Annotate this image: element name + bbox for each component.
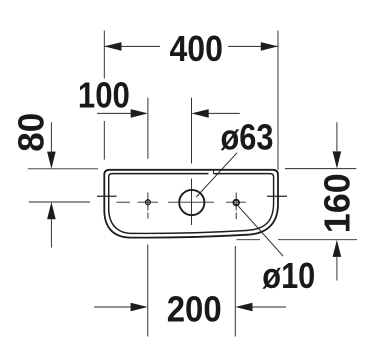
arrow 160 down (333, 151, 342, 168)
ext 160 bottom horizontal seg1 (237, 239, 261, 241)
left hole vertical dash below (147, 213, 149, 219)
dim 160 vertical upper (336, 122, 338, 151)
ext 80 bottom horizontal (29, 201, 90, 203)
dim 160 vertical lower (336, 257, 338, 281)
arrow 100 right / o63 (192, 109, 209, 118)
svg-text:100: 100 (78, 75, 130, 116)
svg-text:ø10: ø10 (262, 255, 315, 296)
big hole circle o63 (179, 190, 204, 215)
lid seam gap on inner top line (209, 173, 214, 175)
svg-text:200: 200 (167, 288, 222, 329)
extension line right (400) (277, 31, 279, 170)
ext 200 right vertical (234, 246, 236, 337)
arrow 200 right (131, 303, 148, 312)
arrow 200 left (235, 303, 252, 312)
ext 80 top horizontal (28, 168, 98, 170)
leader o63 (196, 153, 237, 197)
tank body inner (109, 174, 274, 234)
dim line 400 right segment (228, 45, 278, 47)
text 80 rotated (11, 113, 52, 152)
arrowheads (47, 42, 341, 311)
ext 200 left vertical (147, 245, 149, 337)
ext line 100 left (hole axis above tank) (147, 98, 149, 159)
dim line 400 left segment (104, 45, 160, 47)
tank body outer (104, 170, 278, 238)
arrow 400 left (104, 42, 121, 51)
big circle crosshair vertical (191, 179, 193, 226)
leader o10 (236, 203, 283, 256)
dim 200 left tail (94, 306, 131, 308)
extension line left (400) lower dash (103, 121, 105, 160)
dim 80 vertical upper (50, 122, 52, 152)
right hole crosshair horizontal (226, 201, 246, 203)
ext 160 top horizontal (285, 168, 356, 170)
svg-text:160: 160 (316, 173, 357, 233)
ext line 100 right (center axis above tank) (191, 98, 193, 164)
svg-text:ø63: ø63 (221, 116, 274, 157)
centerlines (117, 179, 247, 226)
dim 80 vertical lower (50, 220, 52, 248)
lid joint tick left edge (97, 195, 117, 197)
lid joint tick right edge (267, 195, 287, 197)
lid seam tick (213, 170, 215, 174)
svg-text:400: 400 (169, 28, 223, 69)
ext 160 bottom horizontal seg2 (278, 239, 357, 241)
arrow 80 up (47, 202, 56, 219)
dim 100 left tail (97, 112, 131, 114)
right hole crosshair vertical (235, 193, 237, 211)
arrow 80 down (47, 152, 56, 169)
left hole crosshair horizontal (138, 201, 159, 203)
extension line left (400) upper (103, 31, 105, 79)
left fixing hole (146, 200, 151, 205)
right fixing hole o10 (233, 200, 239, 206)
arrow 100 left (131, 109, 148, 118)
text 160 rotated (316, 173, 357, 233)
left hole crosshair vertical (147, 193, 149, 211)
horizontal centerline dashes y=202.2 (117, 201, 131, 203)
svg-text:80: 80 (11, 113, 52, 152)
right hole vertical dash below (235, 213, 237, 220)
arrow 160 up (333, 240, 342, 257)
big circle crosshair horizontal (168, 201, 214, 203)
dim 200 right tail (252, 306, 286, 308)
dim 100 right tail (also o63 row) (209, 112, 240, 114)
arrow 400 right (261, 42, 278, 51)
